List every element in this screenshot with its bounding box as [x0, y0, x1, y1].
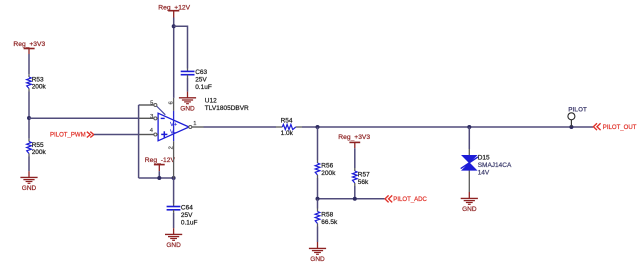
- svg-text:Reg_+3V3: Reg_+3V3: [13, 41, 45, 48]
- wire op-amp SHDN routing to V- rail: [139, 105, 174, 178]
- ground under D15: [461, 192, 478, 213]
- wire C63 to ground: [187, 78, 189, 92]
- diode D15 TVS: [461, 149, 512, 192]
- resistor R53: [27, 74, 47, 91]
- capacitor C63: [181, 69, 212, 92]
- svg-text:SMAJ14CA: SMAJ14CA: [478, 162, 512, 169]
- svg-text:200k: 200k: [32, 149, 47, 156]
- svg-text:66.5k: 66.5k: [321, 219, 338, 226]
- resistor R57: [353, 168, 371, 186]
- svg-text:GND: GND: [166, 242, 181, 249]
- node D junction: [172, 176, 176, 180]
- wire Reg_-12V to V- rail: [158, 171, 160, 178]
- wire R58 to ground: [317, 227, 319, 243]
- wire op-amp V- to C64: [173, 178, 175, 204]
- svg-text:14V: 14V: [478, 170, 490, 177]
- svg-text:GND: GND: [22, 185, 37, 192]
- svg-text:V+: V+: [170, 122, 178, 128]
- power flag Reg_+3V3 left: [13, 41, 45, 54]
- wire Reg_+3V3 to R53: [28, 54, 30, 74]
- wire node H down to D15: [468, 127, 470, 149]
- svg-text:56k: 56k: [358, 179, 369, 186]
- wire R55 to ground: [28, 157, 30, 172]
- svg-text:U12: U12: [205, 98, 217, 105]
- testpoint PILOT: [568, 106, 587, 127]
- wire node B to C63: [174, 26, 188, 68]
- ground under R58: [309, 242, 326, 263]
- resistor R54: [276, 117, 302, 136]
- svg-text:TLV1805DBVR: TLV1805DBVR: [205, 105, 249, 112]
- svg-text:6: 6: [168, 101, 174, 104]
- wire node E down to R56: [317, 127, 319, 160]
- wire PILOT_PWM to op-amp IN+: [94, 134, 140, 136]
- power flag Reg_+3V3 mid: [338, 134, 370, 148]
- wire C64 to ground: [173, 213, 175, 228]
- svg-text:1: 1: [193, 121, 196, 127]
- net label PILOT_PWM: [50, 132, 94, 139]
- svg-text:0.1uF: 0.1uF: [181, 220, 198, 227]
- svg-text:2: 2: [169, 146, 175, 149]
- wire R54 to PILOT_OUT: [302, 126, 593, 128]
- resistor R55: [27, 139, 47, 157]
- wire Reg_+12V rail down to op-amp V+: [173, 18, 175, 98]
- ground under C63: [179, 92, 196, 113]
- svg-text:R54: R54: [281, 117, 293, 124]
- svg-text:200k: 200k: [321, 170, 336, 177]
- node G junction: [353, 197, 357, 201]
- node B junction: [172, 24, 176, 28]
- svg-text:R58: R58: [321, 212, 333, 219]
- svg-text:R56: R56: [321, 163, 333, 170]
- wire R53 to node A: [28, 92, 30, 139]
- svg-text:1.0k: 1.0k: [281, 130, 294, 137]
- svg-text:PILOT: PILOT: [568, 106, 587, 113]
- wire R57 to PILOT_ADC net: [354, 186, 356, 199]
- node I junction testpoint: [569, 125, 573, 129]
- svg-text:GND: GND: [310, 256, 325, 263]
- svg-text:C64: C64: [181, 205, 193, 212]
- node H junction: [467, 125, 471, 129]
- ground under C64: [165, 228, 182, 249]
- svg-text:200k: 200k: [32, 84, 47, 91]
- wire op-amp output to R54: [192, 126, 204, 128]
- node A junction: [27, 116, 31, 120]
- power flag Reg_-12V: [145, 157, 176, 171]
- svg-text:5: 5: [150, 100, 153, 106]
- svg-text:R55: R55: [32, 142, 44, 149]
- node C junction: [157, 176, 161, 180]
- wire Reg_+3V3 to R57: [354, 148, 356, 168]
- svg-text:D15: D15: [478, 155, 490, 162]
- op-amp U12: [154, 98, 192, 178]
- svg-text:25V: 25V: [195, 77, 207, 84]
- svg-text:PILOT_ADC: PILOT_ADC: [393, 197, 427, 203]
- svg-text:GND: GND: [180, 106, 195, 113]
- svg-text:R57: R57: [358, 172, 370, 179]
- resistor R58: [315, 209, 338, 227]
- wire R56 to PILOT_ADC net: [317, 178, 319, 199]
- node F junction: [316, 197, 320, 201]
- svg-text:R53: R53: [32, 76, 44, 83]
- ground left: [20, 171, 37, 192]
- resistor R56: [315, 160, 336, 178]
- svg-text:V-: V-: [170, 130, 176, 136]
- net label PILOT_ADC: [385, 195, 428, 203]
- svg-text:C63: C63: [195, 69, 207, 76]
- svg-text:PILOT_OUT: PILOT_OUT: [603, 125, 637, 131]
- svg-text:3: 3: [150, 114, 153, 120]
- wire node F down to R58: [317, 199, 319, 209]
- net label PILOT_OUT: [593, 123, 636, 131]
- svg-text:Reg_+3V3: Reg_+3V3: [338, 134, 370, 141]
- power flag Reg_+12V: [158, 5, 190, 18]
- svg-text:PILOT_PWM: PILOT_PWM: [50, 132, 86, 138]
- node E junction: [316, 125, 320, 129]
- capacitor C64: [167, 204, 198, 227]
- wire PILOT_ADC horizontal: [318, 198, 385, 200]
- svg-text:25V: 25V: [181, 212, 193, 219]
- wire node A to op-amp IN-: [29, 117, 140, 119]
- svg-text:Reg_-12V: Reg_-12V: [145, 157, 176, 164]
- op-amp U12 reference labels: [205, 98, 249, 112]
- svg-text:GND: GND: [462, 206, 477, 213]
- svg-text:0.1uF: 0.1uF: [195, 84, 212, 91]
